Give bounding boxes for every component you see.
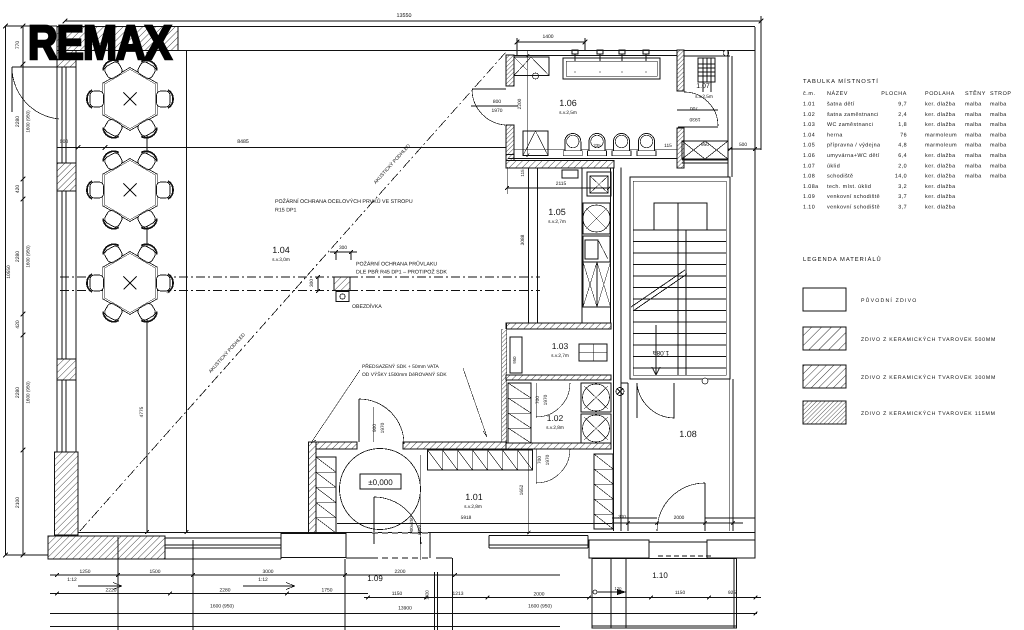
svg-text:1.07: 1.07 xyxy=(803,163,815,169)
svg-text:2,4: 2,4 xyxy=(898,112,907,118)
column obezdivka hatched xyxy=(334,277,350,291)
svg-text:1213: 1213 xyxy=(453,591,464,597)
svg-text:8485: 8485 xyxy=(237,139,249,145)
svg-text:1600 (950): 1600 (950) xyxy=(210,604,234,610)
level marker box xyxy=(360,474,401,489)
staircase door circle xyxy=(702,378,708,384)
svg-text:malba: malba xyxy=(990,174,1007,180)
svg-text:1.03: 1.03 xyxy=(803,122,815,128)
svg-text:ker. dlažba: ker. dlažba xyxy=(925,194,955,200)
dimension chain left xyxy=(22,26,24,555)
svg-text:s.v.3,0m: s.v.3,0m xyxy=(272,257,290,263)
svg-text:1.09: 1.09 xyxy=(367,574,383,583)
svg-text:1400: 1400 xyxy=(542,34,553,40)
wall left hatched segment 1 xyxy=(57,163,76,191)
staircase down arrow xyxy=(655,325,657,375)
wall left hatched segment 2 xyxy=(57,359,76,380)
toilets room 1.06 xyxy=(514,149,677,151)
svg-text:±0,000: ±0,000 xyxy=(368,478,393,487)
acoustic ceiling diagonal xyxy=(80,52,506,531)
svg-text:LEGENDA MATERIÁLŮ: LEGENDA MATERIÁLŮ xyxy=(803,255,882,263)
column obezdivka box xyxy=(336,292,349,302)
svg-text:420: 420 xyxy=(15,320,21,329)
svg-text:malba: malba xyxy=(965,174,982,180)
svg-text:3000: 3000 xyxy=(263,569,274,575)
svg-text:1250: 1250 xyxy=(80,569,91,575)
svg-text:115: 115 xyxy=(520,169,525,177)
legend original masonry xyxy=(803,288,846,311)
staircase bottom door arc xyxy=(637,383,674,418)
svg-text:malba: malba xyxy=(990,102,1007,108)
svg-text:3,7: 3,7 xyxy=(898,205,907,211)
svg-text:1.01: 1.01 xyxy=(465,492,483,502)
svg-text:1.05: 1.05 xyxy=(803,143,815,149)
svg-text:1600 (950): 1600 (950) xyxy=(528,604,552,610)
svg-text:6,4: 6,4 xyxy=(898,153,907,159)
svg-text:s.v.2,7m: s.v.2,7m xyxy=(548,219,566,225)
wall left 1.08 xyxy=(627,383,629,531)
leader predsazeny left xyxy=(311,370,360,443)
svg-text:TABULKA MÍSTNOSTÍ: TABULKA MÍSTNOSTÍ xyxy=(803,77,879,85)
ladder room 1.07 xyxy=(698,58,715,82)
svg-text:OD VÝŠKY 1500mm DěROVANÝ SDK: OD VÝŠKY 1500mm DěROVANÝ SDK xyxy=(362,371,447,378)
svg-text:4775: 4775 xyxy=(139,406,145,417)
trough sink 1.06 xyxy=(563,58,660,79)
svg-text:malba: malba xyxy=(990,143,1007,149)
dim row 1 line xyxy=(50,574,560,576)
section line upper xyxy=(60,276,540,278)
svg-text:900±250: 900±250 xyxy=(409,516,414,534)
svg-text:1.08a: 1.08a xyxy=(652,349,669,356)
svg-text:1970: 1970 xyxy=(543,394,549,405)
svg-text:ker. dlažba: ker. dlažba xyxy=(925,163,955,169)
svg-text:3,2: 3,2 xyxy=(898,184,907,190)
svg-text:1,8: 1,8 xyxy=(898,122,907,128)
svg-text:PŮVODNÍ ZDIVO: PŮVODNÍ ZDIVO xyxy=(861,297,918,304)
wall right 1.08 xyxy=(732,379,734,531)
svg-text:marmoleum: marmoleum xyxy=(925,132,957,138)
wall top 1.06 xyxy=(506,50,755,52)
svg-text:malba: malba xyxy=(990,132,1007,138)
svg-text:POŽÁRNÍ OCHRANA PRŮVLAKU: POŽÁRNÍ OCHRANA PRŮVLAKU xyxy=(356,261,437,268)
svg-text:700: 700 xyxy=(690,105,698,111)
wall mid 1.02 hatched xyxy=(506,375,611,380)
svg-text:1970: 1970 xyxy=(492,108,503,114)
section line lower xyxy=(60,290,540,292)
wall top outer edge xyxy=(57,26,755,28)
svg-text:PODLAHA: PODLAHA xyxy=(925,91,955,97)
svg-text:s.v.2,5m: s.v.2,5m xyxy=(559,110,577,116)
bench shaft 1.01 xyxy=(316,457,336,533)
svg-text:500: 500 xyxy=(60,139,69,145)
dim row2 ticks xyxy=(55,592,59,596)
door 800 room 1.06 xyxy=(472,88,506,90)
window lines left wall xyxy=(61,51,63,453)
door 2000 room 1.08 xyxy=(657,483,705,531)
svg-text:1.05: 1.05 xyxy=(548,207,566,217)
svg-text:OBEZDÍVKA: OBEZDÍVKA xyxy=(352,303,382,310)
svg-text:10550: 10550 xyxy=(6,265,12,279)
svg-text:č.m.: č.m. xyxy=(803,91,816,97)
svg-text:1.07: 1.07 xyxy=(696,83,710,90)
grid line x189 xyxy=(186,51,188,533)
wall bottom 1.08 dim line xyxy=(612,522,743,524)
staircase inner wall xyxy=(633,181,726,375)
staircase outer box xyxy=(630,177,730,379)
svg-text:925: 925 xyxy=(728,590,736,596)
svg-text:malba: malba xyxy=(965,153,982,159)
wall top 1.03 hatched xyxy=(506,323,611,329)
svg-text:9,7: 9,7 xyxy=(898,102,907,108)
slope arrow 1 xyxy=(78,585,122,587)
svg-text:ker. dlažba: ker. dlažba xyxy=(925,112,955,118)
svg-text:1.08: 1.08 xyxy=(803,174,815,180)
play circle 1.01 xyxy=(340,449,421,530)
left dim horizontal connectors xyxy=(6,25,58,27)
cupboard 950 room 1.03 xyxy=(510,337,522,373)
svg-text:PŘEDSAZENÝ SDK + 50mm VATA: PŘEDSAZENÝ SDK + 50mm VATA xyxy=(362,363,440,370)
coat hooks row 1.01 xyxy=(428,450,533,470)
svg-text:3,7: 3,7 xyxy=(898,194,907,200)
svg-text:1150: 1150 xyxy=(392,591,403,597)
table T3 hexagonal with chairs xyxy=(87,241,173,325)
dim row 2 line xyxy=(50,593,368,595)
svg-text:malba: malba xyxy=(965,163,982,169)
dimension 2115 xyxy=(507,187,609,189)
symbol circle-x xyxy=(616,388,624,396)
svg-text:300: 300 xyxy=(309,279,315,287)
staircase treads xyxy=(633,229,726,231)
svg-text:schodiště: schodiště xyxy=(827,174,853,180)
svg-text:malba: malba xyxy=(990,112,1007,118)
svg-text:2000: 2000 xyxy=(534,592,545,598)
french door below 1.07 xyxy=(682,141,728,159)
slope arrow 2 xyxy=(243,585,295,587)
door opening dashes 1.01 xyxy=(372,532,430,534)
bottom band right of 1.09 xyxy=(436,557,452,559)
svg-text:přípravna / výdejna: přípravna / výdejna xyxy=(827,143,880,149)
svg-text:2280: 2280 xyxy=(15,116,21,127)
svg-text:4,8: 4,8 xyxy=(898,143,907,149)
bottom edge line xyxy=(50,626,560,628)
wall left exterior lines xyxy=(56,27,58,453)
leader predsazeny right xyxy=(463,368,487,437)
svg-text:13550: 13550 xyxy=(397,13,412,19)
entrance door top-left xyxy=(12,66,64,68)
svg-text:2200: 2200 xyxy=(517,98,523,109)
svg-text:420: 420 xyxy=(15,185,21,194)
staircase landing xyxy=(654,203,707,230)
wall top inner edge xyxy=(57,50,506,52)
bottom-left hatched block xyxy=(48,536,165,559)
staircase break line xyxy=(631,270,685,307)
wall bottom outer edge xyxy=(78,532,755,534)
svg-text:venkovní schodiště: venkovní schodiště xyxy=(827,205,880,211)
legend ceramic 115 xyxy=(803,401,846,424)
threshold door 1.08 xyxy=(648,540,650,558)
svg-text:malba: malba xyxy=(965,132,982,138)
svg-text:POŽÁRNÍ OCHRANA OCELOVÝCH PRVK: POŽÁRNÍ OCHRANA OCELOVÝCH PRVKŮ VE STROP… xyxy=(275,198,413,205)
wall bottom-left hatched pier xyxy=(55,452,79,535)
wall right 1.06 hatched xyxy=(677,50,684,91)
shaft left 1.02 xyxy=(508,383,531,443)
kitchen unit 4 xyxy=(583,262,597,307)
svg-text:2100: 2100 xyxy=(15,497,21,508)
shower corner 1.06 xyxy=(523,131,548,156)
svg-text:700: 700 xyxy=(537,456,543,464)
wall right of rooms xyxy=(613,168,615,532)
right dim extension xyxy=(755,21,761,23)
svg-text:herna: herna xyxy=(827,132,843,138)
svg-text:s.v.2,8m: s.v.2,8m xyxy=(464,504,482,510)
svg-text:235: 235 xyxy=(593,143,601,148)
svg-text:ker. dlažba: ker. dlažba xyxy=(925,184,955,190)
stair side walls 1.10 xyxy=(591,559,593,629)
low parapet wall band xyxy=(165,537,281,539)
svg-text:ZDIVO Z KERAMICKÝCH TVAROVEK 1: ZDIVO Z KERAMICKÝCH TVAROVEK 115MM xyxy=(861,410,996,417)
changing table 1.06 xyxy=(514,57,549,76)
svg-text:2115: 2115 xyxy=(556,181,567,187)
legend ceramic 300 xyxy=(803,365,846,388)
svg-text:venkovní schodiště: venkovní schodiště xyxy=(827,194,880,200)
svg-text:DLE PBŘ R45 DP1 – PROTIPOŽ SDK: DLE PBŘ R45 DP1 – PROTIPOŽ SDK xyxy=(356,269,447,276)
door arc bottom 1.01 xyxy=(373,497,375,544)
svg-text:1970: 1970 xyxy=(545,454,551,465)
svg-text:800: 800 xyxy=(493,99,501,105)
dim 1.10 line xyxy=(586,597,761,599)
svg-text:500: 500 xyxy=(739,142,747,148)
wall band below 1.06 xyxy=(506,154,514,156)
svg-text:14,0: 14,0 xyxy=(895,174,907,180)
svg-text:1:12: 1:12 xyxy=(258,577,268,583)
svg-text:1.10: 1.10 xyxy=(803,205,815,211)
svg-text:770: 770 xyxy=(15,41,21,50)
svg-text:1.08a: 1.08a xyxy=(803,184,819,190)
desk 1.03 xyxy=(579,344,607,361)
svg-text:1600 (950): 1600 (950) xyxy=(26,110,31,133)
wall left 1.03 xyxy=(506,323,508,449)
door 700 1930 room 1.07 xyxy=(684,92,718,126)
svg-text:malba: malba xyxy=(965,102,982,108)
svg-text:šatna zaměstnanci: šatna zaměstnanci xyxy=(827,112,879,118)
door 900 1970 room 1.01 xyxy=(358,399,360,442)
svg-text:umyvárna+WC dětí: umyvárna+WC dětí xyxy=(827,153,880,159)
svg-text:ker. dlažba: ker. dlažba xyxy=(925,205,955,211)
wall bottom 1.02 hatched xyxy=(506,443,611,449)
dimension 13550 top xyxy=(65,20,761,22)
wall bottom inner edge xyxy=(337,523,612,525)
svg-text:1.02: 1.02 xyxy=(547,413,564,423)
svg-text:malba: malba xyxy=(965,112,982,118)
svg-text:NÁZEV: NÁZEV xyxy=(827,90,848,97)
svg-text:950: 950 xyxy=(701,142,709,148)
wall left hatched segment 0 xyxy=(57,51,76,68)
svg-text:ker. dlažba: ker. dlažba xyxy=(925,174,955,180)
svg-text:1652: 1652 xyxy=(519,484,525,495)
svg-text:1.10: 1.10 xyxy=(652,571,668,580)
svg-text:1.02: 1.02 xyxy=(803,112,815,118)
sink dots xyxy=(574,71,576,73)
legend ceramic 500 xyxy=(803,327,846,350)
svg-text:malba: malba xyxy=(965,143,982,149)
svg-text:ker. dlažba: ker. dlažba xyxy=(925,102,955,108)
svg-text:STROP: STROP xyxy=(990,91,1012,97)
svg-text:300: 300 xyxy=(339,245,347,251)
svg-text:R15 DP1: R15 DP1 xyxy=(275,208,297,214)
svg-text:1.03: 1.03 xyxy=(552,341,569,351)
svg-text:s.v.2,7m: s.v.2,7m xyxy=(551,353,569,359)
bottom lines 1.10 xyxy=(592,625,737,627)
grid line x147 xyxy=(146,52,148,532)
svg-text:s.v.2,8m: s.v.2,8m xyxy=(546,425,564,431)
svg-text:ZDIVO Z KERAMICKÝCH TVAROVEK 5: ZDIVO Z KERAMICKÝCH TVAROVEK 500MM xyxy=(861,336,996,343)
svg-text:šatna dětí: šatna dětí xyxy=(827,102,855,108)
wall left 1.06 hatched upper xyxy=(506,55,514,86)
taps 1.06 xyxy=(574,54,576,61)
svg-text:2200: 2200 xyxy=(395,569,406,575)
kitchen shaft outline xyxy=(581,168,583,323)
wall left 1.01 hatched xyxy=(309,442,317,533)
kitchen fridge unit xyxy=(583,236,610,262)
svg-text:2,0: 2,0 xyxy=(898,163,907,169)
svg-text:13900: 13900 xyxy=(398,606,412,612)
shaft ladder right xyxy=(594,454,613,529)
dimension 8485 xyxy=(57,147,506,149)
dim row 3 line xyxy=(50,613,757,615)
svg-text:malba: malba xyxy=(965,122,982,128)
svg-text:2280: 2280 xyxy=(15,387,21,398)
fan unit 2 room 1.02 xyxy=(581,414,611,443)
svg-text:malba: malba xyxy=(990,122,1007,128)
kitchen unit 5 xyxy=(597,262,611,307)
svg-text:1.04: 1.04 xyxy=(803,132,815,138)
svg-text:1600 (950): 1600 (950) xyxy=(26,381,31,404)
table T1 hexagonal with chairs xyxy=(87,57,173,141)
svg-text:ker. dlažba: ker. dlažba xyxy=(925,153,955,159)
svg-text:2000: 2000 xyxy=(674,515,685,521)
wall top-left hatched xyxy=(57,27,178,51)
svg-text:1150: 1150 xyxy=(675,590,686,596)
exterior stair 1.10 outline xyxy=(592,559,737,629)
svg-text:malba: malba xyxy=(990,163,1007,169)
svg-text:1750: 1750 xyxy=(322,588,333,594)
svg-text:1970: 1970 xyxy=(380,422,386,433)
worktop 1.05 xyxy=(562,170,578,178)
wall left 1.06 hatched lower xyxy=(506,125,514,168)
svg-text:STĚNY: STĚNY xyxy=(965,90,986,97)
svg-text:1.06: 1.06 xyxy=(803,153,815,159)
svg-text:1.04: 1.04 xyxy=(272,245,290,255)
dimension 1400 xyxy=(517,41,585,43)
fan unit 1 room 1.02 xyxy=(581,383,611,412)
svg-text:tech. míst. úklid: tech. míst. úklid xyxy=(827,184,871,190)
svg-text:5918: 5918 xyxy=(461,515,472,521)
kitchen stove unit xyxy=(583,203,610,234)
svg-text:1930: 1930 xyxy=(689,116,700,122)
svg-text:2280: 2280 xyxy=(15,251,21,262)
svg-text:ker. dlažba: ker. dlažba xyxy=(925,122,955,128)
room 1.07 top wall xyxy=(684,55,730,57)
svg-text:1500: 1500 xyxy=(150,569,161,575)
svg-text:ZDIVO Z KERAMICKÝCH TVAROVEK 3: ZDIVO Z KERAMICKÝCH TVAROVEK 300MM xyxy=(861,374,996,381)
svg-text:3088: 3088 xyxy=(520,234,526,245)
table T2 hexagonal with chairs xyxy=(87,148,173,232)
svg-text:1.08: 1.08 xyxy=(679,429,697,439)
wall top 1.01 hatched xyxy=(310,442,357,449)
svg-text:950: 950 xyxy=(512,356,517,364)
svg-text:marmoleum: marmoleum xyxy=(925,143,957,149)
svg-text:1.09: 1.09 xyxy=(803,194,815,200)
svg-text:REMAX: REMAX xyxy=(28,17,172,70)
wall bottom 1.06 hatched xyxy=(506,161,614,169)
svg-text:76: 76 xyxy=(900,132,907,138)
wall below 1.07 xyxy=(682,159,728,161)
svg-text:1600 (950): 1600 (950) xyxy=(26,245,31,268)
wall right 1.07 xyxy=(727,50,729,177)
svg-text:1:12: 1:12 xyxy=(67,577,77,583)
staircase center rails xyxy=(677,203,679,375)
kitchen sink unit xyxy=(587,172,611,196)
svg-text:1.06: 1.06 xyxy=(559,98,577,108)
small dim arrow 1.10 xyxy=(593,590,597,594)
outer boundary right xyxy=(754,27,756,557)
wall bottom room 1.04 edge xyxy=(78,532,308,534)
threshold block 1.09 xyxy=(281,534,346,558)
svg-text:120: 120 xyxy=(615,586,623,591)
svg-text:115: 115 xyxy=(664,143,672,149)
svg-text:malba: malba xyxy=(990,153,1007,159)
svg-text:2550: 2550 xyxy=(417,524,422,535)
svg-text:WC zaměstnanci: WC zaměstnanci xyxy=(827,122,873,128)
svg-text:úklid: úklid xyxy=(827,163,840,169)
svg-text:2280: 2280 xyxy=(220,588,231,594)
ramp lines 1.09 xyxy=(117,537,119,630)
svg-text:2220: 2220 xyxy=(106,588,117,594)
svg-text:1.01: 1.01 xyxy=(803,102,815,108)
dimension 10550 overall left xyxy=(5,26,7,555)
svg-text:PLOCHA: PLOCHA xyxy=(881,91,907,97)
wall 1.05 left xyxy=(528,168,530,324)
